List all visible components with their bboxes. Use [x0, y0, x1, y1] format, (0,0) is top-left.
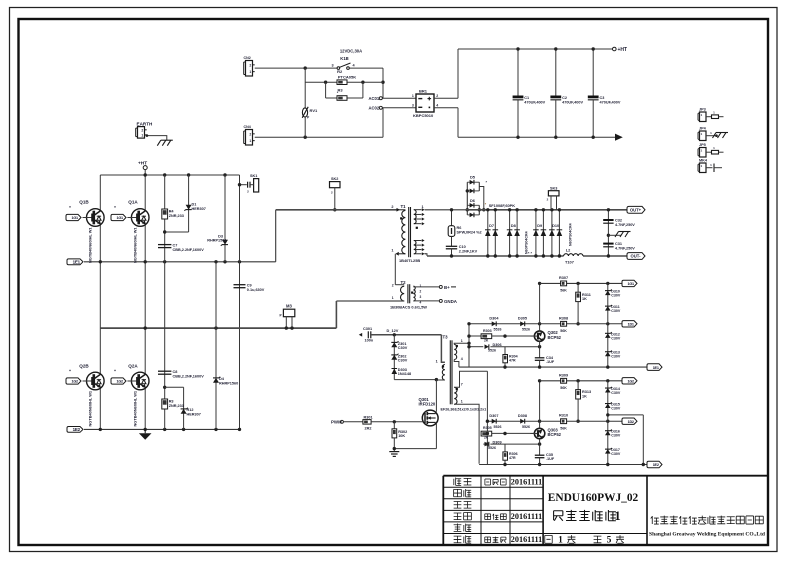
svg-text:C30V: C30V	[611, 391, 621, 395]
svg-text:C30V: C30V	[611, 309, 621, 313]
svg-text:1B30BACS 0.6/1,5W: 1B30BACS 0.6/1,5W	[390, 304, 427, 309]
svg-text:* *: * *	[528, 251, 533, 256]
svg-text:R303: R303	[483, 329, 492, 333]
svg-text:2: 2	[436, 94, 438, 98]
svg-text:1: 1	[141, 133, 143, 137]
svg-text:Q1A: Q1A	[128, 200, 138, 205]
svg-text:C30V: C30V	[611, 355, 621, 359]
svg-text:CN4: CN4	[244, 125, 251, 129]
svg-text:R301: R301	[364, 415, 373, 419]
svg-text:R309: R309	[559, 373, 568, 377]
svg-text:1: 1	[391, 249, 393, 253]
svg-text:C30V: C30V	[611, 452, 621, 456]
svg-text:Shanghai Greatway Welding Equi: Shanghai Greatway Welding Equipment CO.,…	[649, 532, 765, 538]
svg-text:PTCA05K: PTCA05K	[338, 74, 356, 79]
svg-text:1: 1	[558, 536, 563, 546]
svg-text:2: 2	[420, 290, 422, 294]
svg-text:R3: R3	[337, 88, 343, 93]
svg-text:5526: 5526	[522, 425, 530, 429]
svg-text:1: 1	[461, 339, 463, 343]
svg-text:N60PS04CR4: N60PS04CR4	[569, 223, 573, 246]
svg-text:5526: 5526	[522, 328, 530, 332]
svg-text:20161111: 20161111	[511, 512, 542, 521]
svg-text:Q2B: Q2B	[79, 364, 89, 369]
svg-text:SF1008F,60PK: SF1008F,60PK	[489, 203, 516, 208]
svg-text:JP4: JP4	[699, 127, 707, 131]
svg-text:C30V: C30V	[611, 294, 621, 298]
svg-text:D_12V: D_12V	[387, 328, 399, 333]
svg-text:1G2: 1G2	[71, 380, 78, 384]
svg-text:ZNR,233: ZNR,233	[169, 214, 184, 218]
svg-text:C30V: C30V	[611, 407, 621, 411]
svg-text:SK3: SK3	[550, 186, 557, 190]
svg-text:BR1: BR1	[419, 89, 428, 94]
svg-text:D5: D5	[470, 175, 476, 180]
svg-text:EARTH: EARTH	[137, 122, 154, 127]
svg-text:NGTB40N60IHL W1: NGTB40N60IHL W1	[133, 390, 138, 426]
svg-text:Q1B: Q1B	[79, 200, 89, 205]
svg-text:1: 1	[436, 360, 438, 364]
svg-text:1: 1	[461, 400, 463, 404]
svg-text:BCP52: BCP52	[548, 335, 562, 340]
svg-text:R308: R308	[559, 316, 568, 320]
svg-text:4.7NF,250V: 4.7NF,250V	[615, 246, 635, 250]
svg-text:ZNR,233: ZNR,233	[169, 404, 184, 408]
svg-text:2K: 2K	[484, 436, 489, 440]
svg-text:1N4148: 1N4148	[398, 372, 411, 376]
svg-text:D307: D307	[489, 414, 498, 418]
svg-text:RHRP1560: RHRP1560	[207, 239, 226, 243]
svg-text:AC02: AC02	[369, 106, 380, 111]
svg-text:*: *	[114, 205, 116, 210]
svg-text:R307: R307	[559, 276, 568, 280]
svg-text:5526: 5526	[488, 349, 496, 353]
svg-text:1B40TL25B: 1B40TL25B	[399, 258, 420, 263]
svg-text:2: 2	[391, 205, 393, 209]
svg-text:B+: B+	[444, 285, 450, 290]
svg-text:KBPC5010: KBPC5010	[413, 113, 434, 118]
svg-text:1E1: 1E1	[73, 260, 81, 265]
svg-text:T107: T107	[565, 260, 574, 265]
svg-text:AC01: AC01	[369, 96, 380, 101]
svg-text:470UF,400V: 470UF,400V	[562, 100, 583, 104]
svg-text:1K: 1K	[582, 394, 587, 398]
svg-text:HER307: HER307	[192, 207, 206, 211]
svg-text:0.1u,630V: 0.1u,630V	[247, 288, 265, 292]
svg-text:IRFD120: IRFD120	[419, 402, 436, 407]
svg-text:2K: 2K	[484, 338, 489, 342]
svg-text:4.7NF,250V: 4.7NF,250V	[615, 223, 635, 227]
svg-text:56K: 56K	[560, 289, 567, 293]
svg-text:1: 1	[420, 284, 422, 288]
svg-text:K1B: K1B	[340, 56, 348, 61]
svg-text:R305: R305	[483, 426, 492, 430]
svg-text:NGTB40N60IHL W1: NGTB40N60IHL W1	[88, 227, 93, 263]
svg-text:GNDA: GNDA	[444, 299, 458, 304]
svg-text:56K: 56K	[560, 426, 567, 430]
svg-text:4: 4	[461, 357, 463, 361]
svg-text:5526: 5526	[488, 446, 496, 450]
svg-text:D304: D304	[489, 317, 499, 321]
svg-text:10K: 10K	[398, 434, 405, 438]
svg-text:M3: M3	[286, 304, 292, 309]
svg-text:12VDC,30A: 12VDC,30A	[340, 49, 362, 54]
svg-text:1: 1	[614, 508, 621, 523]
svg-text:.1UF: .1UF	[546, 457, 555, 461]
svg-text:2: 2	[249, 132, 251, 136]
svg-text:5: 5	[607, 536, 612, 546]
svg-text:HER307: HER307	[187, 412, 201, 416]
svg-text:D305: D305	[518, 317, 527, 321]
svg-text:470UF,400V: 470UF,400V	[524, 100, 545, 104]
svg-text:1G1: 1G1	[627, 282, 634, 286]
svg-text:4: 4	[436, 104, 438, 108]
svg-text:*: *	[69, 369, 71, 374]
svg-text:SK2: SK2	[331, 177, 338, 181]
svg-text:C30V: C30V	[398, 359, 408, 363]
svg-text:SPW,0R24 %2: SPW,0R24 %2	[457, 230, 482, 234]
svg-text:1E2: 1E2	[73, 427, 81, 432]
svg-text:1E1: 1E1	[653, 366, 659, 370]
svg-text:7: 7	[461, 382, 463, 386]
svg-text:2R2: 2R2	[365, 426, 372, 430]
svg-text:3: 3	[331, 64, 333, 68]
svg-text:3: 3	[412, 104, 414, 108]
svg-text:*: *	[114, 369, 116, 374]
svg-text:20161111: 20161111	[511, 535, 542, 544]
svg-text:EF26,368,51x2/0.1x3/1.2x1: EF26,368,51x2/0.1x3/1.2x1	[441, 407, 487, 411]
svg-text:1G1: 1G1	[71, 216, 78, 220]
svg-text:100n: 100n	[365, 339, 374, 343]
svg-text:D9: D9	[537, 224, 542, 228]
svg-text:.1UF: .1UF	[546, 360, 555, 364]
svg-text:2: 2	[392, 284, 394, 288]
svg-text:JP3: JP3	[699, 108, 706, 112]
svg-text:1: 1	[249, 70, 251, 74]
svg-text:C30V: C30V	[611, 336, 621, 340]
svg-text:1K: 1K	[582, 297, 587, 301]
svg-text:JP5: JP5	[699, 143, 706, 147]
svg-text:1D2: 1D2	[628, 420, 634, 424]
svg-text:C301: C301	[363, 327, 372, 331]
svg-text:SK1: SK1	[250, 174, 257, 178]
svg-text:56K: 56K	[560, 386, 567, 390]
svg-text:1G2: 1G2	[116, 380, 123, 384]
svg-text:CBB,2.2NF,1600V: CBB,2.2NF,1600V	[173, 248, 205, 252]
svg-text:NGTB40N60IHL W1: NGTB40N60IHL W1	[133, 227, 138, 263]
svg-text:RHRP1560: RHRP1560	[219, 381, 238, 385]
svg-text:47R: 47R	[509, 359, 516, 363]
svg-text:D308: D308	[518, 414, 527, 418]
svg-text:MK4: MK4	[699, 159, 708, 163]
svg-text:2.2NF,1KV: 2.2NF,1KV	[459, 249, 478, 253]
svg-text:47R: 47R	[509, 456, 516, 460]
svg-text:1: 1	[392, 296, 394, 300]
svg-text:+HT: +HT	[618, 47, 628, 53]
svg-text:1E2: 1E2	[653, 463, 659, 467]
svg-text:5526: 5526	[494, 425, 502, 429]
svg-text:20161111: 20161111	[511, 477, 542, 486]
svg-text:1G1: 1G1	[116, 216, 123, 220]
svg-text:C30V: C30V	[398, 346, 408, 350]
svg-text:2: 2	[141, 128, 143, 132]
svg-text:*: *	[69, 205, 71, 210]
svg-text:BCP52: BCP52	[548, 432, 562, 437]
svg-text:RV1: RV1	[310, 108, 318, 113]
svg-text:C30V: C30V	[611, 434, 621, 438]
svg-text:D8: D8	[511, 224, 516, 228]
svg-text:OUT+: OUT+	[630, 208, 642, 213]
svg-text:470UF,400V: 470UF,400V	[600, 100, 621, 104]
svg-text:1D1: 1D1	[628, 323, 634, 327]
svg-text:+HT: +HT	[138, 161, 147, 167]
svg-text:ENDU160PWJ_02: ENDU160PWJ_02	[548, 492, 639, 504]
svg-text:CN2: CN2	[244, 56, 251, 60]
svg-text:56K: 56K	[560, 329, 567, 333]
svg-text:T3: T3	[443, 335, 449, 340]
svg-text:1: 1	[412, 94, 414, 98]
svg-text:D6: D6	[470, 198, 476, 203]
svg-text:1: 1	[249, 139, 251, 143]
svg-text:3: 3	[420, 295, 422, 299]
svg-text:R310: R310	[559, 414, 568, 418]
svg-text:CBB,2.2NF,1600V: CBB,2.2NF,1600V	[173, 374, 205, 378]
svg-text:NGTB40N60IHL W1: NGTB40N60IHL W1	[88, 390, 93, 426]
svg-text:1G2: 1G2	[627, 380, 634, 384]
svg-text:2: 2	[249, 63, 251, 67]
svg-text:5526: 5526	[494, 328, 502, 332]
svg-text:D10: D10	[552, 224, 559, 228]
svg-text:D7: D7	[489, 224, 494, 228]
svg-text:T1: T1	[401, 204, 407, 209]
svg-text:Q2A: Q2A	[128, 364, 138, 369]
svg-text:OUT-: OUT-	[630, 254, 641, 259]
